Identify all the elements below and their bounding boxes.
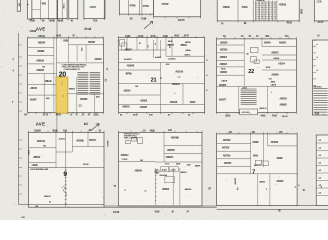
block 22 mid divider — [217, 85, 297, 87]
svg-text:CM: CM — [42, 66, 45, 68]
svg-text:AB0905: AB0905 — [140, 106, 148, 109]
svg-text:4BEH4: 4BEH4 — [69, 87, 76, 90]
svg-text:AB6098: AB6098 — [171, 137, 180, 140]
svg-text:AB960: AB960 — [252, 141, 259, 144]
block 21 upper right lots — [165, 38, 167, 57]
paper speckle noise — [105, 32, 108, 35]
lot line crossing lower AVE street — [56, 113, 58, 132]
svg-text:147.36: 147.36 — [113, 211, 120, 214]
svg-text:AB55.00: AB55.00 — [175, 71, 184, 74]
svg-text:2: 2 — [237, 187, 239, 191]
block 7 left column rows — [250, 134, 252, 174]
block 22 outline — [217, 39, 297, 112]
svg-text:4x0002: 4x0002 — [155, 56, 162, 59]
svg-text:AB09.13: AB09.13 — [259, 107, 267, 110]
svg-text:4BEH2: 4BEH2 — [45, 80, 52, 83]
svg-text:AB0902: AB0902 — [280, 103, 288, 106]
small circle mark — [79, 104, 82, 107]
far-left thin lot at top edge — [17, 0, 20, 11]
svg-text:AB7960: AB7960 — [220, 48, 228, 51]
svg-text:AB0012: AB0012 — [254, 164, 262, 167]
svg-text:4B5A77: 4B5A77 — [89, 139, 97, 142]
svg-text:AB0903: AB0903 — [219, 63, 227, 66]
lot frontage tick marks along streets — [27, 113, 29, 115]
svg-text:98.98: 98.98 — [58, 19, 64, 23]
svg-text:497.46: 497.46 — [178, 18, 185, 22]
block 20 left column lot lines — [53, 38, 55, 113]
top block E (lots) — [119, 0, 153, 14]
svg-text:478008: 478008 — [279, 3, 287, 6]
svg-text:AVE: AVE — [36, 122, 46, 127]
svg-text:455504: 455504 — [180, 44, 187, 47]
svg-text:AB7002: AB7002 — [222, 147, 230, 150]
svg-text:4BP09: 4BP09 — [125, 73, 132, 76]
map seam line crossing top street — [56, 19, 58, 38]
block 7 middle column — [263, 134, 265, 167]
block 20 outline — [28, 38, 104, 113]
svg-text:AB0097: AB0097 — [94, 58, 102, 61]
svg-text:AB6043: AB6043 — [134, 170, 142, 173]
svg-text:AB600A: AB600A — [166, 156, 174, 159]
top-left narrow lot strip — [28, 0, 32, 19]
highlighted parcel (yellow) — [56, 77, 68, 113]
svg-text:21: 21 — [151, 78, 157, 84]
block 8 big NE lot — [163, 132, 165, 162]
top block A — [32, 0, 57, 19]
block 9 interior lot lines — [55, 132, 57, 167]
svg-text:AB7600: AB7600 — [271, 141, 279, 144]
block 7 lower lots — [257, 174, 259, 206]
svg-text:AB0901: AB0901 — [140, 100, 148, 103]
svg-text:ORD KOHL: ORD KOHL — [313, 87, 323, 89]
block 20 upper-right lots — [56, 38, 58, 77]
svg-text:45.50: 45.50 — [287, 21, 293, 25]
svg-text:AB09F3: AB09F3 — [271, 52, 279, 55]
block 7 outline — [217, 134, 297, 206]
svg-text:AB7003: AB7003 — [223, 154, 231, 157]
block 21 row lines — [119, 61, 205, 63]
svg-text:AB60B7: AB60B7 — [167, 149, 176, 152]
dense text rows far-right block — [313, 88, 327, 90]
svg-text:9: 9 — [63, 171, 67, 178]
svg-text:L4B 98: L4B 98 — [221, 79, 228, 82]
far-right middle block — [313, 40, 328, 115]
svg-text:2nd: 2nd — [84, 27, 91, 31]
svg-text:AB09F2: AB09F2 — [279, 41, 287, 44]
block 21 upper small lots — [126, 38, 128, 50]
dense unit-list columns — [78, 71, 89, 73]
block 8 lower strips — [155, 168, 157, 205]
svg-text:AB5099: AB5099 — [76, 139, 84, 142]
svg-text:AB0703: AB0703 — [280, 97, 288, 100]
svg-text:COMMON AREA LOT: COMMON AREA LOT — [64, 68, 81, 71]
svg-text:+B5062: +B5062 — [33, 156, 41, 159]
svg-text:AB30-4: AB30-4 — [278, 63, 285, 66]
svg-text:AB0977: AB0977 — [219, 99, 227, 102]
block 7 right column — [266, 134, 268, 146]
svg-text:b1: b1 — [84, 122, 88, 126]
svg-text:AB50.07: AB50.07 — [44, 195, 52, 198]
svg-text:A 0.0927 1: A 0.0927 1 — [124, 58, 133, 61]
svg-text:AVE: AVE — [36, 27, 46, 32]
block 8 dense lot cluster with number — [155, 169, 159, 173]
top block G — [217, 0, 299, 21]
block 7 mid divider — [217, 173, 297, 175]
svg-text:AB6099: AB6099 — [185, 188, 193, 191]
svg-text:AB5A49: AB5A49 — [37, 140, 46, 143]
svg-text:+B0040: +B0040 — [30, 87, 38, 90]
bottom street edge lines — [19, 204, 104, 206]
svg-text:G: G — [208, 187, 212, 190]
svg-text:AB09%: AB09% — [264, 41, 271, 44]
svg-text:45.4.78: 45.4.78 — [162, 168, 167, 171]
svg-text:AB0062: AB0062 — [36, 59, 45, 62]
svg-text:8: 8 — [156, 170, 158, 174]
block 20 lots right of parcel — [68, 93, 104, 95]
svg-text:AB960: AB960 — [276, 157, 283, 160]
svg-text:43003: 43003 — [190, 101, 196, 104]
svg-text:ABO90: ABO90 — [123, 90, 131, 93]
svg-text:UNITS + COM AREA: UNITS + COM AREA — [124, 136, 138, 139]
svg-text:AB09-03: AB09-03 — [172, 83, 181, 86]
top block F (big lot) — [154, 0, 201, 17]
far-right bottom block — [316, 135, 328, 206]
svg-text:AB0995: AB0995 — [220, 41, 228, 44]
svg-text:1.08.98: 1.08.98 — [29, 30, 37, 33]
svg-text:AB09+: AB09+ — [185, 49, 192, 52]
top block H (far right) — [314, 0, 328, 21]
svg-text:AB06P: AB06P — [30, 98, 37, 101]
svg-text:478936: 478936 — [223, 6, 231, 9]
svg-text:AB60+7: AB60+7 — [180, 171, 188, 174]
svg-text:B.41 45.44: B.41 45.44 — [160, 174, 169, 177]
svg-text:AB0097: AB0097 — [125, 49, 133, 52]
svg-text:+3.00 1.08: +3.00 1.08 — [241, 112, 250, 114]
svg-text:7: 7 — [252, 170, 255, 176]
top block D — [84, 0, 105, 19]
svg-text:477006: 477006 — [143, 5, 150, 8]
block 22 center small buildings — [250, 47, 258, 52]
svg-text:+B0082: +B0082 — [37, 50, 45, 53]
svg-text:47009: 47009 — [242, 6, 249, 9]
svg-text:AB9007: AB9007 — [276, 180, 284, 183]
top block C — [69, 0, 78, 19]
svg-text:78.98 487.98: 78.98 487.98 — [256, 0, 264, 2]
block 9 outline — [29, 132, 105, 207]
pencil arrow across lower street — [90, 124, 99, 131]
small protruding lot at block 22 bottom — [240, 109, 258, 115]
small circle mark on middle street — [105, 79, 107, 81]
svg-text:1.08.98: 1.08.98 — [31, 165, 38, 167]
svg-text:70.98: 70.98 — [141, 17, 147, 21]
svg-text:78.98: 78.98 — [29, 19, 35, 23]
top block B — [58, 0, 68, 19]
dense vertical-text strips in block G — [254, 1, 256, 21]
svg-text:AB0034: AB0034 — [36, 69, 45, 72]
block 21 outline — [119, 38, 205, 113]
svg-text:4.9: 4.9 — [106, 68, 109, 70]
svg-text:477005: 477005 — [129, 4, 136, 7]
svg-text:22: 22 — [248, 69, 254, 75]
svg-text:AB7005: AB7005 — [224, 162, 232, 165]
svg-text:AB7009: AB7009 — [234, 178, 237, 185]
block 8 outline — [119, 132, 203, 206]
svg-text:1.08.107 AMENDED LANE: 1.08.107 AMENDED LANE — [30, 168, 49, 171]
svg-text:49 92: 49 92 — [56, 114, 62, 117]
svg-text:72.74: 72.74 — [317, 20, 323, 24]
svg-text:AB0098: AB0098 — [80, 98, 88, 101]
svg-text:4B0087: 4B0087 — [38, 41, 46, 44]
svg-text:C#G.P: C#G.P — [90, 5, 97, 9]
svg-text:AB0097: AB0097 — [88, 41, 96, 44]
left street edge line with lot ticks — [18, 33, 20, 205]
svg-text:AB0948: AB0948 — [127, 65, 135, 68]
svg-text:AB0905: AB0905 — [219, 84, 227, 87]
pencil arrow across top street — [144, 21, 153, 28]
svg-text:57.70: 57.70 — [43, 114, 49, 117]
svg-text:AB6012: AB6012 — [121, 154, 130, 157]
block 22 left column rows — [243, 39, 245, 87]
svg-text:AB60P: AB60P — [195, 165, 201, 168]
map seam ticked line through block 9 — [65, 132, 67, 207]
svg-text:A-5A13: A-5A13 — [59, 137, 66, 140]
svg-text:AB0918: AB0918 — [170, 101, 178, 104]
svg-text:477007: 477007 — [162, 3, 170, 6]
svg-text:AB0903: AB0903 — [122, 106, 130, 109]
svg-text:AB300#: AB300# — [220, 71, 228, 74]
block 22 right column — [261, 39, 263, 47]
svg-text:88.98: 88.98 — [49, 19, 55, 23]
block 22 lower lots — [238, 86, 240, 112]
svg-text:AB6016: AB6016 — [162, 188, 170, 191]
svg-text:A-9047-2: A-9047-2 — [168, 58, 176, 61]
svg-text:AB09F3: AB09F3 — [219, 56, 227, 59]
